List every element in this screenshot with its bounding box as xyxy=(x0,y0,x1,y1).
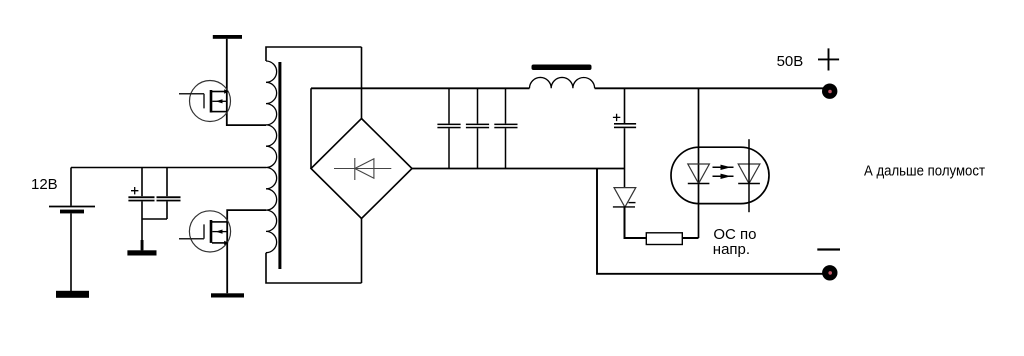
svg-text:12В: 12В xyxy=(31,176,58,193)
svg-text:напр.: напр. xyxy=(713,241,750,258)
svg-text:50В: 50В xyxy=(777,53,804,70)
svg-text:А дальше полумост: А дальше полумост xyxy=(864,163,985,180)
